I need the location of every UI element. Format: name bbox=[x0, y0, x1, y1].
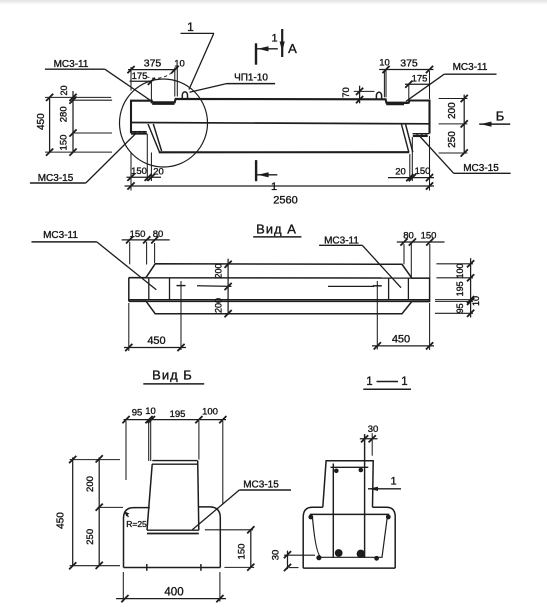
left extension lines bbox=[45, 96, 111, 98]
svg-text:30: 30 bbox=[368, 424, 379, 435]
svg-text:МС3-11: МС3-11 bbox=[54, 59, 89, 70]
svg-text:375: 375 bbox=[144, 58, 162, 70]
svg-text:10: 10 bbox=[145, 406, 156, 417]
svg-text:150: 150 bbox=[237, 544, 248, 560]
lifting loop cross mark left bbox=[177, 285, 186, 287]
svg-text:МС3-15: МС3-15 bbox=[243, 480, 279, 491]
svg-text:А: А bbox=[288, 41, 297, 56]
plate MC3-11 left in plan bbox=[148, 278, 150, 300]
svg-text:80: 80 bbox=[153, 229, 164, 240]
plan inner line bottom flange edge (double) bbox=[129, 299, 430, 301]
svg-text:200: 200 bbox=[214, 298, 224, 313]
svg-text:1: 1 bbox=[390, 476, 396, 488]
svg-text:375: 375 bbox=[400, 58, 418, 70]
svg-text:МС3-15: МС3-15 bbox=[463, 163, 499, 174]
vid B bottom edge tick marks bbox=[146, 564, 148, 571]
section mark 1 top bbox=[255, 43, 257, 64]
plan right chain 100-195-10-95 bbox=[470, 258, 472, 317]
svg-text:Вид Б: Вид Б bbox=[152, 368, 193, 383]
rebar dots flange bbox=[308, 515, 313, 520]
right plate hatch marks bbox=[416, 133, 419, 135]
svg-text:95: 95 bbox=[455, 303, 465, 313]
plan inner line top flange edge bbox=[129, 277, 430, 279]
rebar dots web bbox=[334, 469, 339, 474]
flange stirrup bbox=[310, 513, 389, 515]
right extension lines bbox=[439, 98, 468, 100]
right dimension chain 200-250 bbox=[463, 95, 465, 154]
lifting loop ChP1-10 left bbox=[182, 92, 187, 99]
svg-text:100: 100 bbox=[455, 263, 465, 278]
right dap diagonal cut lines bbox=[402, 124, 409, 152]
vid B extension lines from top chain bbox=[125, 421, 127, 480]
right dapped-end bottom with plate MC3-15 (double line) bbox=[413, 133, 430, 135]
dimension 175 top right bbox=[405, 83, 430, 85]
vid B left extension lines bbox=[70, 459, 120, 461]
svg-text:10: 10 bbox=[174, 59, 185, 70]
plan dimension 450 left bbox=[124, 347, 186, 349]
dimension 30 bottom of section bbox=[287, 551, 289, 570]
plan dimension 80-150 top right bbox=[397, 241, 445, 243]
vid B dimension 150 right bbox=[250, 530, 252, 568]
section mark 1 bottom bbox=[255, 160, 257, 181]
axis line segment left bbox=[197, 285, 232, 288]
svg-text:150: 150 bbox=[59, 135, 70, 151]
left dap diagonal cut lines bbox=[148, 124, 160, 152]
svg-text:400: 400 bbox=[164, 587, 183, 599]
overall dimension 2560 bbox=[125, 185, 435, 187]
svg-text:175: 175 bbox=[132, 71, 148, 82]
svg-text:450: 450 bbox=[392, 334, 410, 346]
svg-text:1: 1 bbox=[271, 33, 277, 45]
svg-text:150: 150 bbox=[130, 229, 146, 240]
dimension 30 top of section bbox=[360, 438, 378, 440]
embedded plate MC3-11 right seat (thick) bbox=[386, 103, 404, 106]
left plate hatch marks bbox=[134, 131, 137, 133]
svg-text:200: 200 bbox=[214, 263, 224, 278]
dimension 375 top right bbox=[379, 69, 433, 71]
section flange outline bbox=[303, 507, 323, 568]
svg-text:150: 150 bbox=[131, 166, 147, 177]
vid B dimension 400 bottom bbox=[116, 598, 226, 600]
dimension 70 (loop height) right bbox=[359, 86, 361, 104]
left dapped-end bottom with plate MC3-15 (double line) bbox=[131, 131, 147, 133]
section web outline bbox=[323, 461, 373, 508]
left dimension chain 450 overall bbox=[49, 97, 51, 152]
svg-text:250: 250 bbox=[85, 529, 96, 545]
plan dimension 450 right bbox=[372, 345, 434, 347]
svg-text:ЧП1-10: ЧП1-10 bbox=[234, 73, 268, 84]
svg-text:Б: Б bbox=[496, 109, 505, 124]
embedded plate MC3-11 left seat (thick) bbox=[152, 102, 174, 105]
svg-text:МС3-11: МС3-11 bbox=[453, 62, 488, 73]
stirrup leg left (bar 1) bbox=[332, 464, 334, 559]
vid B top dimension chain 95-10-195-100 bbox=[124, 419, 227, 421]
dimension 20-150 bottom right bbox=[388, 177, 434, 179]
left dimension chain 20-280-150 bbox=[72, 91, 74, 152]
vid B web (ledge) outline bbox=[152, 460, 197, 462]
svg-text:30: 30 bbox=[271, 550, 282, 561]
svg-text:280: 280 bbox=[59, 106, 70, 122]
detail callout 1 leader bbox=[181, 32, 215, 34]
view A arrow marker bbox=[281, 29, 283, 57]
dimension 375 top left bbox=[128, 69, 176, 71]
web stirrup top tie bbox=[331, 466, 369, 468]
svg-text:450: 450 bbox=[147, 335, 165, 347]
svg-text:2560: 2560 bbox=[273, 195, 297, 207]
stirrup leg right extended as extension line bbox=[364, 434, 366, 558]
svg-text:95: 95 bbox=[132, 408, 143, 419]
callout 1 stirrup with arrow bbox=[368, 488, 401, 490]
svg-text:450: 450 bbox=[56, 512, 67, 529]
beam elevation outline bbox=[131, 99, 430, 134]
svg-text:100: 100 bbox=[202, 407, 218, 418]
svg-text:20: 20 bbox=[59, 85, 69, 95]
plan outline of beam bbox=[129, 264, 430, 314]
svg-text:1: 1 bbox=[271, 181, 277, 193]
flange line (web/soffit step) across beam bbox=[131, 123, 430, 124]
svg-text:1: 1 bbox=[366, 376, 372, 388]
svg-text:70: 70 bbox=[341, 87, 352, 98]
svg-text:195: 195 bbox=[455, 281, 465, 296]
svg-text:20: 20 bbox=[395, 167, 406, 178]
vid B flange outline with rounded corners bbox=[124, 508, 150, 568]
svg-text:175: 175 bbox=[412, 74, 428, 85]
svg-text:150: 150 bbox=[415, 166, 431, 177]
svg-text:1: 1 bbox=[401, 376, 407, 388]
plan mid dimension 200-200 bbox=[227, 259, 229, 315]
beam bottom edge bbox=[159, 151, 409, 153]
vid B left chain 450 bbox=[72, 457, 74, 566]
vid B left chain 200-250 bbox=[98, 457, 100, 566]
svg-text:200: 200 bbox=[85, 476, 96, 492]
lifting loop ChP1-10 right bbox=[376, 92, 381, 99]
dimension 150-20 bottom left bbox=[127, 176, 162, 178]
svg-text:Вид А: Вид А bbox=[256, 222, 297, 237]
svg-text:R=25: R=25 bbox=[126, 519, 147, 529]
vid B plate MC3-15 line (double) bbox=[147, 529, 199, 531]
lifting loop cross mark right bbox=[373, 285, 382, 287]
svg-text:МС3-11: МС3-11 bbox=[43, 230, 78, 241]
svg-text:20: 20 bbox=[153, 167, 164, 178]
detail circle (uzel 1) bbox=[120, 79, 208, 167]
plan dimension 150-80 top left bbox=[122, 239, 170, 241]
svg-text:195: 195 bbox=[170, 409, 186, 420]
svg-text:250: 250 bbox=[447, 131, 458, 148]
svg-text:150: 150 bbox=[421, 231, 437, 242]
dimension 175 top left with dashed curve bbox=[130, 80, 152, 82]
axis line segment right bbox=[328, 285, 374, 287]
plate MC3-11 right in plan bbox=[388, 278, 390, 300]
plan right extension lines bbox=[436, 263, 473, 265]
svg-text:450: 450 bbox=[36, 113, 47, 130]
svg-text:1: 1 bbox=[187, 20, 194, 34]
svg-text:80: 80 bbox=[403, 231, 414, 242]
svg-text:200: 200 bbox=[447, 102, 458, 119]
